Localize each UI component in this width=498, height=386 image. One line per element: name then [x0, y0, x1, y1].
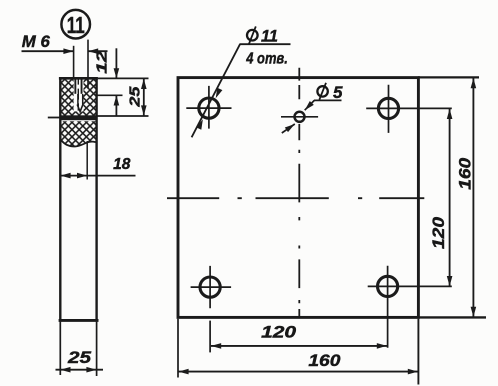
svg-text:12: 12	[93, 50, 110, 74]
svg-text:25: 25	[67, 348, 92, 367]
dim 12 lower segment	[115, 95, 117, 116]
right edge ext down	[417, 319, 419, 385]
bottom 25 ext left	[59, 322, 61, 375]
phi symbol of O11	[247, 26, 258, 43]
hole axis dash-dot	[77, 77, 79, 111]
bottom 25 arrow right	[86, 367, 96, 373]
svg-text:120: 120	[430, 216, 448, 249]
plate outline	[178, 78, 418, 318]
M6 dim line right tail	[88, 50, 108, 52]
svg-text:4 отв.: 4 отв.	[245, 50, 287, 67]
pilot hole right line	[82, 94, 84, 105]
thread left bar	[74, 79, 76, 93]
vertical centerline	[298, 68, 300, 317]
balloon leader / ext line	[87, 40, 89, 89]
dim 160b arrow left	[178, 369, 188, 375]
dim 120b arrow right	[377, 343, 387, 349]
bottom edge ext right	[418, 316, 486, 318]
svg-text:5: 5	[333, 83, 343, 102]
dim 120b arrow left	[211, 343, 221, 349]
dim 160v arrow down	[471, 307, 477, 317]
O5 crosshair	[281, 116, 318, 118]
dim 120v arrow up	[447, 109, 453, 119]
balloon 11 circle	[61, 10, 90, 39]
step line (thick band)	[60, 115, 96, 120]
label O5 leader	[305, 100, 315, 110]
dim 25 arrow down	[141, 105, 147, 115]
bottom 25 ext right	[96, 322, 98, 376]
svg-text:M 6: M 6	[22, 32, 51, 51]
threaded hole bore (white channel)	[74, 79, 84, 111]
pilot hole left line	[77, 94, 79, 105]
M6 arrow left-pointing	[88, 48, 98, 54]
svg-text:18: 18	[113, 156, 131, 173]
phi symbol of O5	[317, 83, 327, 100]
svg-text:25: 25	[127, 86, 144, 108]
thread right bar	[81, 79, 83, 93]
top edge ext right	[418, 76, 479, 78]
dim 18 arrow right	[77, 173, 87, 179]
part top edge	[59, 77, 98, 80]
M6 ext line left	[73, 46, 75, 79]
M6 arrow right-pointing	[63, 48, 73, 54]
O11 leader arrow (lower)	[196, 119, 203, 130]
M6 dim line left tail	[22, 50, 74, 52]
hole BR	[378, 276, 398, 296]
hole TL	[199, 98, 219, 118]
hole TR crosshair + ext to 120 dim	[366, 85, 452, 133]
part right edge	[95, 77, 97, 321]
bottom 25 dim line	[56, 369, 104, 371]
dim 160v arrow up	[471, 78, 477, 88]
horizontal centerline	[167, 197, 424, 199]
step ext right (25 dim lower extension)	[96, 115, 149, 117]
dim 18 ext line	[86, 141, 88, 180]
step ext left	[48, 117, 60, 119]
dim 25 line (right of section)	[143, 79, 145, 116]
svg-text:120: 120	[261, 322, 297, 341]
dim 160 vertical line	[472, 78, 474, 317]
hole center O5	[295, 112, 305, 122]
dim 12 arrow up	[114, 95, 120, 105]
left edge ext down	[177, 319, 179, 378]
part left edge	[59, 77, 61, 321]
label O11 leader	[192, 44, 240, 137]
dim 120 bottom line	[211, 345, 387, 347]
drill cone	[77, 105, 83, 112]
svg-text:11: 11	[67, 12, 85, 38]
hole BL crosshair	[191, 266, 232, 308]
dim 160 bottom line	[178, 371, 418, 373]
dim 18 line	[60, 175, 135, 177]
part bottom edge	[59, 319, 99, 322]
bottom 25 arrow left	[60, 367, 70, 373]
hatch lower block	[61, 121, 95, 146]
hole BR crosshair + ext	[368, 266, 452, 348]
thread depth ext right	[97, 94, 123, 96]
dim 160b arrow right	[408, 369, 418, 375]
dim 12 upper segment	[115, 48, 117, 78]
O5 lower arrow stub	[282, 124, 295, 133]
dim 12 arrow down	[114, 68, 120, 78]
dim 25 arrow up	[141, 79, 147, 89]
hole TR	[378, 98, 398, 118]
O5 underline	[314, 99, 342, 101]
hole BL ext down to 120 dim	[209, 321, 211, 353]
svg-text:160: 160	[456, 157, 474, 190]
O5 leader arrow	[305, 101, 314, 110]
hole BL	[200, 277, 220, 297]
dim 120v arrow down	[447, 276, 453, 286]
svg-text:160: 160	[308, 352, 341, 370]
O11 leader arrow (upper)	[216, 88, 223, 99]
dim 120 vertical line	[449, 109, 451, 286]
hatch upper block (rubber section)	[61, 79, 95, 116]
O11 underline	[240, 43, 291, 45]
hole TL crosshair	[186, 86, 231, 129]
svg-text:11: 11	[261, 27, 278, 46]
dim 18 arrow left	[60, 173, 70, 179]
break line (wavy)	[61, 140, 95, 146]
top face ext right (12/25 dim upper extension)	[98, 77, 149, 79]
